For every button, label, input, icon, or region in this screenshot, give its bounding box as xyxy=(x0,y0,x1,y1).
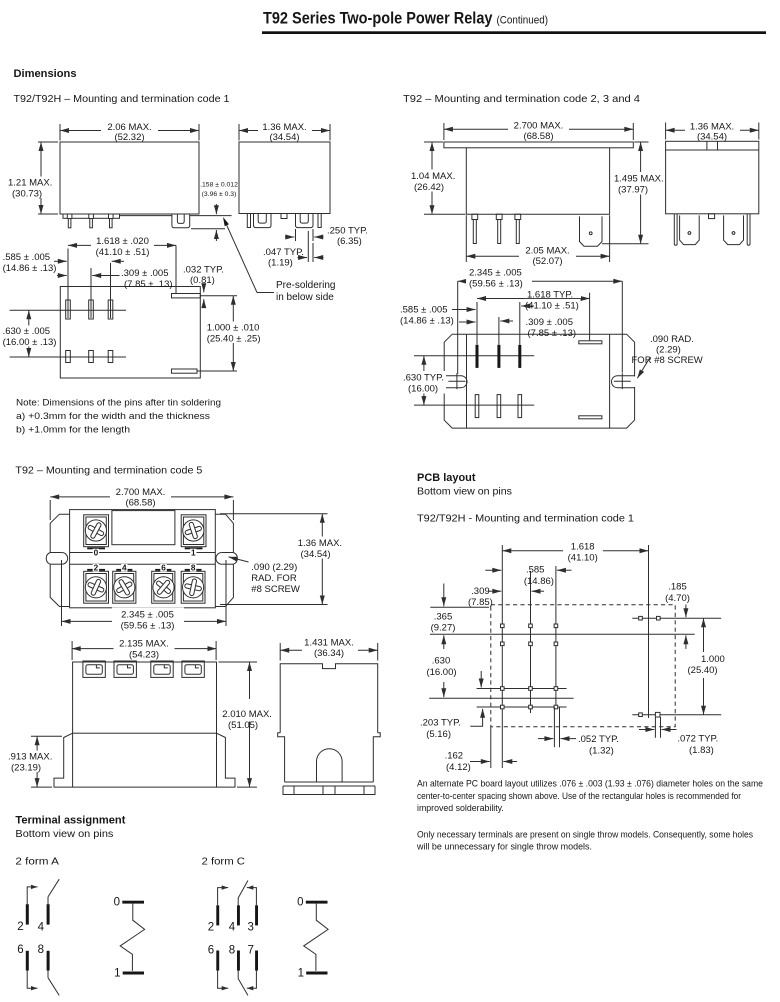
dim 1.495 dimension line xyxy=(640,142,642,244)
svg-text:Dimensions: Dimensions xyxy=(14,68,77,80)
dim .047 TYP extension lines xyxy=(307,231,309,262)
formC pin 7 contact bar xyxy=(255,951,258,971)
formC coil top bar xyxy=(306,901,328,904)
dim 1.618 dimension line xyxy=(68,244,176,246)
pcb lower holes row B squares xyxy=(501,705,505,709)
svg-text:(59.56 ± .13): (59.56 ± .13) xyxy=(469,279,523,290)
dim 2.010 dimension line xyxy=(249,662,251,787)
formC pin 7 wire xyxy=(249,971,256,989)
svg-text:(1.32): (1.32) xyxy=(589,746,614,757)
svg-text:(23.19): (23.19) xyxy=(11,763,41,774)
code1 bottom bottom pin 3 xyxy=(108,351,113,363)
dim .203 bracket xyxy=(470,722,482,726)
formA pin 2 wire xyxy=(27,887,34,904)
code5 front body xyxy=(73,662,217,733)
code1 front base strip xyxy=(63,214,120,218)
code234 bottom extension pin col3 xyxy=(519,302,521,345)
formC pin 8 blade xyxy=(237,971,239,979)
formC pin 6 wire xyxy=(218,971,226,989)
dim 1.36 MAX dimension line xyxy=(239,130,330,132)
code234 side tab 2 xyxy=(724,215,744,244)
svg-text:Note: Dimensions of the pins a: Note: Dimensions of the pins after tin s… xyxy=(16,398,221,409)
formC pin 3 wire xyxy=(249,888,256,906)
svg-text:Only necessary terminals are p: Only necessary terminals are present on … xyxy=(417,830,754,840)
pcb lower centerline xyxy=(429,697,573,699)
code5 side bottom band xyxy=(283,786,375,795)
dim 2.345 dimension line (code5) xyxy=(62,620,227,622)
pcb hole right top 2 xyxy=(657,616,661,620)
svg-text:8: 8 xyxy=(191,564,196,573)
dim .630 dimension line xyxy=(28,310,30,357)
formC pin 2 wire xyxy=(218,888,226,906)
code5 top body xyxy=(70,510,216,608)
svg-text:2: 2 xyxy=(17,921,23,933)
dim 2.345 dimension line xyxy=(458,280,623,282)
svg-text:2.345 ± .005: 2.345 ± .005 xyxy=(469,268,522,279)
pcb hole right bottom 2 xyxy=(655,712,660,717)
svg-text:(36.34): (36.34) xyxy=(314,648,344,659)
svg-text:.585: .585 xyxy=(526,565,545,576)
svg-text:1.618: 1.618 xyxy=(571,541,595,552)
svg-text:(1.83): (1.83) xyxy=(689,745,714,756)
svg-text:1: 1 xyxy=(191,548,196,557)
dim .032 TYP arrows xyxy=(203,285,205,293)
dim 1.618 dimension line (pcb) xyxy=(502,550,648,552)
code5 top left wing slot xyxy=(50,552,62,554)
svg-text:.630 TYP.: .630 TYP. xyxy=(403,373,444,384)
svg-text:(7.85 ± .13): (7.85 ± .13) xyxy=(124,279,173,290)
code1 bottom top pin 1 xyxy=(66,300,71,319)
dim 1.36 dimension line (side) xyxy=(666,129,759,131)
code1 pin bottom reference line xyxy=(191,228,225,230)
code1 bottom top pin 3 xyxy=(108,300,113,319)
svg-text:1: 1 xyxy=(298,967,304,979)
code1 side quick-connect tab 1 xyxy=(254,214,272,228)
code234 front pin 2 xyxy=(496,214,502,219)
code5 top window xyxy=(112,511,175,545)
code234 front pin 3 xyxy=(515,214,521,219)
svg-text:1.04 MAX.: 1.04 MAX. xyxy=(411,171,455,182)
svg-text:4: 4 xyxy=(38,922,45,934)
code5 side body xyxy=(280,664,378,733)
code1 bottom bottom tab extension line xyxy=(197,370,237,372)
pcb column line 3 xyxy=(555,566,557,707)
code234 front quick-connect tab xyxy=(580,216,603,246)
svg-text:(3.96 ± 0.3): (3.96 ± 0.3) xyxy=(202,191,237,198)
svg-text:0: 0 xyxy=(94,548,99,557)
code234 bottom right ear slot xyxy=(634,376,636,387)
code1 bottom top row centerline xyxy=(10,309,126,311)
code5 terminal block xyxy=(182,661,204,677)
dim 1.21 MAX extension lines xyxy=(38,141,58,143)
code234 bottom extension pin col2 xyxy=(498,317,500,345)
code1 bottom bottom pin 2 xyxy=(89,351,94,363)
dim 2.700 dimension line xyxy=(444,128,633,130)
formC coil zigzag xyxy=(304,904,328,971)
dim .090 RAD leader (234) xyxy=(637,358,650,379)
pcb bottom right holes row line xyxy=(632,714,721,716)
svg-text:2.135 MAX.: 2.135 MAX. xyxy=(119,639,169,650)
formC pin 3 contact bar xyxy=(255,905,258,925)
svg-text:6: 6 xyxy=(17,944,23,956)
formA pin 8 blade xyxy=(47,971,49,978)
formA pin 6 contact bar xyxy=(26,951,29,971)
code5 terminal block xyxy=(83,661,105,677)
formA coil top bar xyxy=(122,901,144,904)
svg-text:0: 0 xyxy=(297,897,303,909)
code5 top right wing slot xyxy=(222,552,234,554)
code234 bottom bottom row centerline xyxy=(414,404,534,406)
svg-text:(7.85): (7.85) xyxy=(468,597,493,608)
dim .047 TYP arrows xyxy=(298,257,308,259)
svg-text:2.010 MAX.: 2.010 MAX. xyxy=(222,709,272,720)
svg-text:(25.40 ± .25): (25.40 ± .25) xyxy=(207,334,261,345)
code1 front pin 2 xyxy=(89,214,94,219)
dim .158 arrows xyxy=(215,204,217,214)
dim .250 TYP arrows xyxy=(285,236,294,238)
dim 2.700 dimension line (code5) xyxy=(50,496,233,498)
dim .203 arrows (pcb) xyxy=(480,671,482,688)
code234 bottom extension tab center xyxy=(589,293,591,341)
svg-text:.309: .309 xyxy=(471,586,490,597)
formA coil bottom bar xyxy=(123,972,144,975)
svg-text:.052 TYP.: .052 TYP. xyxy=(578,734,619,745)
svg-text:(25.40): (25.40) xyxy=(688,665,718,676)
code5 side feet dividers xyxy=(293,786,295,795)
formA pin 4 blade xyxy=(47,897,49,904)
dim .913 dimension line xyxy=(36,736,38,787)
svg-text:b) +1.0mm for the length: b) +1.0mm for the length xyxy=(16,425,130,436)
code1 bottom view outline xyxy=(60,287,200,379)
code234 side body xyxy=(666,141,759,214)
svg-text:2.700 MAX.: 2.700 MAX. xyxy=(116,487,166,498)
code1 bottom bottom pin 1 xyxy=(66,351,71,363)
dim 1.36 MAX extension lines xyxy=(238,124,240,141)
svg-text:FOR #8 SCREW: FOR #8 SCREW xyxy=(632,355,703,366)
pcb col4 pin width lines xyxy=(654,717,656,738)
svg-text:.090 RAD.: .090 RAD. xyxy=(650,334,694,345)
svg-text:2 form A: 2 form A xyxy=(15,857,59,868)
dim 2.010 extension lines xyxy=(219,661,258,663)
pcb column line 4 xyxy=(648,545,650,718)
svg-text:Bottom view on pins: Bottom view on pins xyxy=(15,829,113,840)
svg-text:will be unnecessary for single: will be unnecessary for single throw mod… xyxy=(416,842,592,852)
svg-text:(14.86 ± .13): (14.86 ± .13) xyxy=(3,263,57,274)
svg-text:1.618 TYP.: 1.618 TYP. xyxy=(527,290,573,301)
dim 1.618 extension line right xyxy=(175,245,177,293)
svg-text:1.618 ± .020: 1.618 ± .020 xyxy=(96,236,149,247)
dim .585 arrows (pcb) xyxy=(485,569,501,571)
svg-text:1.431 MAX.: 1.431 MAX. xyxy=(304,638,354,649)
code1 front pin 1 xyxy=(67,214,72,219)
code234 bottom bottom tab xyxy=(579,416,602,419)
code234 front body xyxy=(466,148,609,214)
code5 terminal block xyxy=(151,661,173,677)
pcb top edge extension line xyxy=(430,606,489,608)
code234 bottom flange octagon xyxy=(444,334,634,428)
code1 side quick-connect tab 2 xyxy=(296,214,314,228)
code5 terminal screw 6 xyxy=(152,571,175,603)
svg-text:.090 (2.29): .090 (2.29) xyxy=(251,562,297,573)
svg-text:(4.12): (4.12) xyxy=(446,762,471,773)
code5 terminal block xyxy=(114,661,136,677)
formC pin 4 blade xyxy=(237,898,239,905)
svg-text:(52.07): (52.07) xyxy=(532,256,562,267)
dim 1.495 extension lines xyxy=(634,141,648,143)
code5 side left step xyxy=(278,733,285,782)
code5 terminal screw 4 xyxy=(113,571,136,603)
svg-text:.203 TYP.: .203 TYP. xyxy=(420,718,461,729)
pre-soldering leader line xyxy=(257,292,274,294)
svg-text:.309 ± .005: .309 ± .005 xyxy=(121,268,168,279)
code234 side thin pin right xyxy=(747,214,750,246)
svg-text:.185: .185 xyxy=(668,582,687,593)
formC coil bottom bar xyxy=(306,972,327,975)
pcb lower holes row line A xyxy=(477,688,567,690)
svg-text:1: 1 xyxy=(114,967,120,979)
code5 side bottom strip xyxy=(285,781,374,783)
svg-text:a) +0.3mm for the width and th: a) +0.3mm for the width and the thicknes… xyxy=(16,411,210,422)
pcb lower holes row line B xyxy=(477,706,567,708)
svg-text:1.495 MAX.: 1.495 MAX. xyxy=(614,174,664,185)
formA pin 4 contact bar xyxy=(47,904,50,924)
svg-text:.032 TYP.: .032 TYP. xyxy=(183,264,224,275)
dim 1.618 TYP text xyxy=(524,290,581,298)
code1 bottom extension line pin col 3 xyxy=(110,263,112,318)
code234 bottom inner body lines xyxy=(466,334,468,428)
formC pin 4 contact bar xyxy=(237,905,240,925)
svg-text:.250 TYP.: .250 TYP. xyxy=(327,226,368,237)
svg-text:(16.00 ± .13): (16.00 ± .13) xyxy=(3,337,57,348)
pcb col3 pin width lines xyxy=(553,707,555,747)
code5 terminal screw 2 xyxy=(84,571,109,603)
formC pin 8 contact bar xyxy=(237,951,240,971)
dim 1.431 dimension line xyxy=(280,649,378,651)
svg-text:(14.86): (14.86) xyxy=(524,576,554,587)
svg-text:.365: .365 xyxy=(434,612,453,623)
svg-text:.047 TYP.: .047 TYP. xyxy=(263,247,304,258)
dim 2.05 dimension line xyxy=(466,255,609,257)
svg-text:6: 6 xyxy=(161,564,166,573)
code1 bottom bottom tab xyxy=(172,369,198,373)
svg-text:PCB layout: PCB layout xyxy=(417,472,476,484)
svg-text:(34.54): (34.54) xyxy=(301,549,331,560)
svg-text:2.345 ± .005: 2.345 ± .005 xyxy=(121,610,174,621)
svg-text:.630: .630 xyxy=(432,656,451,667)
svg-text:.158 ± 0.012: .158 ± 0.012 xyxy=(200,182,238,189)
svg-text:4: 4 xyxy=(229,922,236,934)
svg-text:(0.81): (0.81) xyxy=(190,275,215,286)
svg-text:Terminal assignment: Terminal assignment xyxy=(15,815,125,827)
svg-text:(30.73): (30.73) xyxy=(12,189,42,200)
pcb upper holes row A xyxy=(501,624,505,628)
formC pin 6 contact bar xyxy=(216,951,219,971)
svg-text:(5.16): (5.16) xyxy=(426,729,451,740)
svg-text:RAD. FOR: RAD. FOR xyxy=(251,573,297,584)
dim 1.21 MAX dimension line xyxy=(40,142,42,214)
svg-text:6: 6 xyxy=(208,945,214,957)
svg-text:(1.19): (1.19) xyxy=(268,258,293,269)
pcb lower holes row A squares xyxy=(501,687,505,691)
svg-text:8: 8 xyxy=(229,945,235,957)
svg-text:(6.35): (6.35) xyxy=(337,236,362,247)
svg-text:(41.10): (41.10) xyxy=(568,553,598,564)
dim .162 arrows (pcb) xyxy=(470,761,490,763)
code1 front pin 3 xyxy=(109,214,114,219)
pcb hole right top 1 xyxy=(639,616,643,620)
svg-text:(7.85 ± .13): (7.85 ± .13) xyxy=(528,328,577,339)
svg-text:8: 8 xyxy=(38,944,44,956)
svg-text:T92 – Mounting and termination: T92 – Mounting and termination code 2, 3… xyxy=(403,94,640,105)
dim 2.700 extension lines xyxy=(443,123,445,140)
code234 side top notch xyxy=(706,141,708,150)
dim 2.345 extension lines (code5) xyxy=(61,560,63,626)
code5 terminal screw 0 xyxy=(84,515,109,547)
formC pin 2 contact bar xyxy=(216,905,219,925)
svg-text:(2.29): (2.29) xyxy=(656,345,681,356)
dim .365 arrows and text (pcb) xyxy=(443,584,445,607)
code5 side right step xyxy=(373,733,380,782)
code1 side thin pin left xyxy=(247,214,250,228)
code234 side thin pin left xyxy=(674,214,677,246)
dim 2.135 dimension line xyxy=(72,648,217,650)
svg-text:An alternate PC board layout u: An alternate PC board layout utilizes .0… xyxy=(417,779,763,789)
code234 bottom top pins (filled) xyxy=(476,345,479,368)
dim .052 arrows (pcb) xyxy=(538,738,553,740)
svg-text:.585 ± .005: .585 ± .005 xyxy=(400,305,447,316)
pcb upper centerline xyxy=(430,633,695,635)
code1 bottom bottom row centerline xyxy=(10,356,126,358)
dim 1.431 extension lines xyxy=(279,643,281,661)
svg-text:(16.00): (16.00) xyxy=(426,667,456,678)
dim 2.700 extension lines (code5) xyxy=(49,500,51,520)
code5 front base inner lines xyxy=(72,733,74,787)
code1 bottom extension line pin col 2 xyxy=(90,268,92,318)
svg-text:.913 MAX.: .913 MAX. xyxy=(8,752,52,763)
dim 1.36 extension lines (code5) xyxy=(220,513,328,515)
svg-text:7: 7 xyxy=(247,945,253,957)
svg-text:center-to-center spacing shown: center-to-center spacing shown above. Us… xyxy=(417,791,741,801)
code1 side center tab xyxy=(281,214,287,219)
code1 front view body xyxy=(60,142,199,214)
formA pin 6 wire xyxy=(27,971,34,989)
svg-text:T92 Series Two-pole Power Rela: T92 Series Two-pole Power Relay (Continu… xyxy=(263,10,548,28)
dim 1.36 extension lines (side) xyxy=(665,123,667,140)
svg-text:T92/T92H – Mounting and termin: T92/T92H – Mounting and termination code… xyxy=(14,94,230,105)
code234 bottom top tab xyxy=(579,341,602,344)
dim 2.345 extension lines xyxy=(457,281,459,374)
svg-text:.162: .162 xyxy=(445,751,464,762)
dim 2.05 extension lines xyxy=(465,215,467,262)
svg-text:(14.86 ± .13): (14.86 ± .13) xyxy=(400,316,454,327)
svg-text:#8 SCREW: #8 SCREW xyxy=(251,584,300,595)
svg-text:1.21 MAX.: 1.21 MAX. xyxy=(8,178,52,189)
svg-text:(9.27): (9.27) xyxy=(431,623,456,634)
svg-text:Pre-soldering: Pre-soldering xyxy=(276,280,335,291)
svg-text:(34.54): (34.54) xyxy=(697,132,727,143)
formA coil zigzag xyxy=(120,904,144,971)
pre-soldering leader arrowhead xyxy=(223,217,229,226)
code5 top left wing xyxy=(50,514,69,606)
pcb dashed outline xyxy=(491,605,675,727)
pcb bottom left pin lines xyxy=(490,727,492,768)
dim .185 arrows (pcb) xyxy=(685,605,687,618)
svg-text:3: 3 xyxy=(247,922,253,934)
dim .913 extension lines xyxy=(31,735,62,737)
svg-text:.072 TYP.: .072 TYP. xyxy=(677,734,718,745)
dim 2.06 MAX extension lines xyxy=(59,124,61,141)
dim .309 arrows (234) xyxy=(459,321,476,323)
dim .090 RAD leader (code5) xyxy=(229,557,249,562)
dim .309 arrows (pcb) xyxy=(488,590,501,592)
svg-text:2: 2 xyxy=(208,922,214,934)
svg-text:(59.56 ± .13): (59.56 ± .13) xyxy=(121,621,175,632)
svg-text:2: 2 xyxy=(94,564,99,573)
dim .309 arrows xyxy=(57,275,67,277)
dim .585 arrows (234) xyxy=(452,309,476,311)
code1 side view body xyxy=(239,142,330,214)
svg-text:.585 ± .005: .585 ± .005 xyxy=(3,252,50,263)
dim .585 arrows xyxy=(54,260,67,262)
code234 bottom right screw cross xyxy=(614,380,631,382)
svg-text:1.000: 1.000 xyxy=(701,654,725,665)
dim 1.04 extension lines xyxy=(424,141,443,143)
svg-text:(51.05): (51.05) xyxy=(228,720,258,731)
dim 1.000 dimension line xyxy=(232,296,234,371)
svg-text:T92 – Mounting and termination: T92 – Mounting and termination code 5 xyxy=(15,466,202,477)
svg-text:(68.58): (68.58) xyxy=(523,131,553,142)
pcb column line 1 xyxy=(501,545,503,768)
code5 top right wing xyxy=(215,514,233,606)
code234 bottom left ear slot xyxy=(443,376,445,387)
code234 bottom top row centerline xyxy=(414,355,534,357)
code234 bottom left screw cross xyxy=(448,380,465,382)
code5 side arch cutout xyxy=(317,749,343,782)
svg-text:(41.10 ± .51): (41.10 ± .51) xyxy=(96,247,150,258)
code5 terminal screw 1 xyxy=(181,515,206,547)
formA pin 2 contact bar xyxy=(26,904,29,924)
code234 side center nub xyxy=(709,214,715,219)
dim .630 TYP dimension line (234) xyxy=(423,356,425,405)
code1 bottom top tab extension line xyxy=(200,295,237,297)
code234 front pin 1 xyxy=(472,214,478,219)
dim 2.06 MAX dimension line xyxy=(60,130,199,132)
code5 terminal screw 8 xyxy=(181,571,205,603)
code1 side thin pin right xyxy=(318,214,321,228)
code5 front base outline xyxy=(54,733,235,787)
code1 bottom extension line pin col 1 xyxy=(67,249,69,319)
svg-text:1.36 MAX.: 1.36 MAX. xyxy=(298,538,342,549)
pcb hole right bottom 1 xyxy=(639,713,643,717)
code234 side flange line xyxy=(666,149,759,151)
pcb upper holes row B xyxy=(501,642,505,646)
code234 bottom extension pin col1 xyxy=(476,302,478,345)
dim .250 TYP extension lines xyxy=(295,229,297,241)
svg-text:(52.32): (52.32) xyxy=(114,132,144,143)
code1 bottom top tab xyxy=(172,294,201,298)
code1 pre-solder reference line xyxy=(120,215,172,217)
pcb column line 2 xyxy=(530,571,532,713)
svg-text:0: 0 xyxy=(114,897,120,909)
code5 top center band xyxy=(70,552,216,554)
dim 2.135 extension lines xyxy=(71,641,73,660)
dim .072 arrows (pcb) xyxy=(639,729,654,731)
code1 front quick-connect tab xyxy=(172,214,190,228)
svg-text:2 form C: 2 form C xyxy=(202,857,246,868)
dim 1.618 TYP dimension line xyxy=(477,298,590,300)
code234 front flange xyxy=(444,142,633,148)
svg-text:Bottom view on pins: Bottom view on pins xyxy=(417,487,512,498)
